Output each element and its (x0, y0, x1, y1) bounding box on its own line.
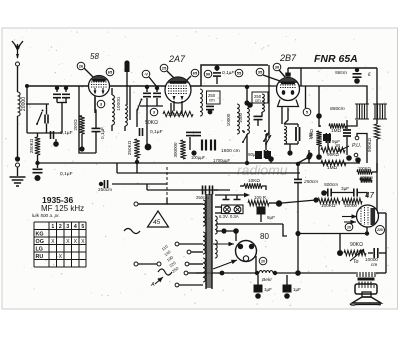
wire right rail down b (376, 152, 378, 213)
black cap block (255, 151, 262, 159)
wire (260, 214, 262, 222)
svg-text:To: To (353, 259, 359, 265)
resistor 100R (248, 200, 269, 205)
junction (214, 65, 219, 70)
svg-text:10KΩ: 10KΩ (248, 178, 260, 183)
capacitor 58cm (353, 73, 362, 75)
pilot lamp 2 (234, 206, 241, 213)
terminal PU2 (354, 153, 358, 157)
wire (279, 70, 285, 77)
wire (358, 193, 367, 198)
tuning capacitor C1 (53, 93, 61, 95)
wire (189, 137, 191, 150)
resistor IF2 (316, 131, 321, 146)
wire (181, 101, 183, 114)
circled label 65 (106, 68, 114, 76)
wire (55, 139, 57, 144)
speaker cone (352, 297, 381, 303)
junction (355, 68, 359, 72)
wire (289, 144, 291, 153)
wire (346, 120, 357, 126)
wire (216, 77, 218, 84)
wire box left (79, 86, 96, 153)
junction (255, 271, 259, 275)
resistor 1M b (321, 160, 346, 165)
junction blob (35, 175, 41, 181)
svg-text:500KΩ: 500KΩ (367, 137, 372, 152)
circled label 3 (97, 100, 105, 108)
wire caps common (57, 102, 67, 104)
junction (35, 161, 39, 165)
junction mid (307, 152, 312, 157)
junction rail corner (25, 84, 29, 88)
switch PU lever (337, 146, 349, 152)
wire (346, 137, 348, 155)
capacitor C9 (139, 128, 141, 136)
junction (365, 231, 369, 235)
circled label -V (142, 70, 150, 78)
wire rail continues (201, 85, 306, 87)
wire pilot feed a (215, 206, 222, 208)
svg-text:65: 65 (193, 70, 198, 75)
switch S5 (263, 140, 265, 142)
wire (146, 98, 148, 106)
wire (346, 120, 348, 129)
wire (265, 134, 267, 150)
wire plate lead (216, 223, 283, 225)
capacitor (186, 131, 194, 133)
capacitor bottom b (209, 186, 211, 195)
svg-text:2A7: 2A7 (168, 54, 186, 64)
svg-text:1MΩ: 1MΩ (309, 129, 314, 139)
wire top rail upper right (288, 67, 377, 69)
svg-text:5: 5 (81, 224, 84, 230)
wire (37, 133, 39, 137)
capacitor bottom a (202, 186, 204, 195)
svg-text:0,1µF: 0,1µF (60, 130, 73, 136)
wire (216, 65, 218, 71)
wire (167, 71, 174, 78)
wire (257, 275, 259, 285)
switch S4 (265, 143, 267, 145)
electrolytic cap hatched (323, 134, 331, 141)
resistor 200 ohm (79, 116, 84, 134)
wire rail to 47 (298, 233, 367, 235)
svg-text:ε: ε (368, 72, 371, 78)
dashed wire (166, 167, 168, 198)
junction blob (354, 78, 360, 84)
svg-text:500cm: 500cm (324, 182, 338, 187)
capacitor 250cm (103, 180, 105, 188)
circled label 20 (259, 257, 267, 265)
capacitor 0.1uF (50, 131, 52, 139)
capacitor 1600cm a (201, 140, 203, 151)
capacitor AF triple (343, 130, 351, 136)
svg-text:10000: 10000 (116, 97, 122, 111)
wire (146, 184, 148, 190)
resistor 100K c (318, 198, 340, 203)
pilot lamp box (222, 205, 244, 214)
potentiometer 500K (374, 124, 379, 139)
junction d2 (316, 154, 322, 160)
wire (116, 163, 118, 173)
wire right rail down (376, 68, 378, 124)
coil 2B7 grid (262, 94, 264, 112)
svg-text:100µµF: 100µµF (191, 155, 206, 160)
svg-text:A: A (150, 282, 155, 288)
svg-text:250cm: 250cm (98, 187, 112, 192)
junction AF (316, 113, 322, 119)
junction cap1 (55, 86, 59, 90)
junction (245, 161, 249, 165)
terminal (157, 262, 161, 266)
wire (263, 75, 280, 81)
svg-text:250KΩ: 250KΩ (127, 140, 132, 155)
capacitor C6 (92, 127, 101, 129)
wire (372, 171, 377, 173)
wire AVC long rail (100, 162, 360, 164)
wire (95, 132, 97, 153)
wire (156, 86, 158, 92)
capacitor IF2 b (325, 133, 327, 143)
wire (286, 275, 288, 285)
wire (136, 164, 138, 173)
svg-text:X: X (51, 239, 55, 245)
svg-text:LG: LG (36, 247, 44, 253)
svg-text:58cm: 58cm (335, 70, 347, 76)
svg-text:4: 4 (74, 224, 77, 230)
tube 58 (89, 76, 110, 97)
wire (111, 88, 113, 95)
wire (129, 86, 131, 113)
svg-text:30: 30 (275, 64, 280, 69)
wire (376, 163, 378, 172)
capacitor 10000cm row (353, 189, 355, 197)
wire (257, 120, 259, 126)
svg-text:0,1µF: 0,1µF (150, 129, 163, 135)
wire 47 bottom (366, 227, 368, 234)
capacitor (254, 115, 263, 117)
wire (379, 252, 386, 254)
wire main right drop (297, 164, 299, 273)
svg-text:25: 25 (162, 65, 167, 70)
wire (186, 76, 191, 81)
svg-text:1700µµF: 1700µµF (213, 158, 231, 163)
wire (136, 110, 138, 127)
wire (282, 200, 316, 203)
capacitor 1600cm b (210, 140, 212, 151)
capacitor (206, 105, 214, 107)
wire grid return (318, 86, 320, 127)
svg-text:P.U.: P.U. (352, 143, 361, 149)
rectifier tube 80 (236, 241, 257, 262)
transformer primary top (203, 200, 205, 226)
wire (283, 224, 287, 236)
svg-text:55: 55 (237, 70, 242, 75)
wire (65, 86, 67, 92)
wire rail 4 (147, 189, 230, 191)
wire (326, 192, 327, 194)
filter cap 2 (283, 285, 291, 292)
transformer primary mid (203, 232, 205, 254)
IF can 2 hatch (375, 104, 385, 119)
capacitor tone (373, 248, 375, 258)
wire (275, 272, 298, 274)
power transformer core hatch (206, 195, 212, 287)
svg-text:880cm: 880cm (330, 106, 345, 112)
IF can 1 frame (355, 104, 369, 119)
tube 2B7 (277, 78, 300, 107)
svg-text:9µF: 9µF (267, 215, 275, 220)
switch S3 (242, 141, 244, 143)
dial cap a (223, 195, 230, 200)
junction cap2 (64, 86, 68, 90)
output transformer core (358, 278, 375, 281)
terminal ground link (16, 163, 20, 167)
wire (368, 252, 373, 254)
wire (356, 68, 358, 72)
transformer primary bottom (203, 258, 205, 282)
wire (318, 146, 320, 157)
svg-text:1MΩ: 1MΩ (327, 165, 338, 170)
wire (297, 141, 299, 144)
svg-text:300000: 300000 (168, 112, 184, 117)
electrolytic 8uF (257, 207, 265, 214)
wire (146, 86, 148, 92)
IF can 1 hatch (357, 104, 367, 119)
speaker base (350, 304, 380, 306)
transformer core right (211, 194, 213, 289)
svg-text:MF 125 kHz: MF 125 kHz (41, 204, 84, 213)
svg-text:X: X (74, 239, 78, 245)
wire (319, 125, 321, 127)
svg-text:45: 45 (153, 219, 161, 226)
svg-text:X: X (59, 254, 63, 260)
triangle 45 (148, 211, 169, 227)
wire tap3 (189, 263, 203, 265)
svg-text:1600 cm: 1600 cm (221, 148, 240, 154)
junction bottom (295, 270, 301, 276)
capacitor 0.1uF top (213, 72, 221, 74)
circled label 35 (256, 68, 264, 76)
wire (246, 86, 248, 104)
junction (273, 271, 277, 275)
svg-text:1000: 1000 (238, 112, 243, 123)
svg-text:220: 220 (377, 228, 383, 232)
resistor 50K osc (163, 111, 193, 116)
junction (191, 150, 196, 155)
voltage tap 2 (187, 250, 191, 254)
svg-text:100 R: 100 R (254, 195, 267, 200)
capacitor C3 (44, 115, 46, 124)
svg-text:X: X (81, 239, 85, 245)
junction (244, 100, 249, 105)
junction (233, 228, 239, 234)
svg-text:1µF: 1µF (293, 287, 301, 292)
svg-text:1: 1 (51, 224, 54, 230)
wire PU frame (357, 134, 367, 164)
wire (377, 212, 386, 214)
IF primary coil (200, 89, 202, 116)
resistor 10K (244, 183, 262, 188)
svg-text:1µF: 1µF (264, 287, 272, 292)
wire rect cathode (255, 256, 257, 273)
tube 2A7 (165, 77, 191, 103)
wire (308, 150, 310, 163)
junction (245, 85, 249, 89)
voltage tap 3 (185, 262, 189, 266)
wire box bottom (27, 132, 62, 134)
circled label 30 (273, 63, 281, 71)
padder capacitor (143, 92, 151, 94)
ground symbol (10, 177, 26, 186)
wire (37, 155, 39, 168)
coil IF2 a (284, 126, 287, 144)
wire rail 2 (117, 172, 300, 174)
svg-text:FNR 65A: FNR 65A (314, 53, 358, 65)
arrow heater b (213, 260, 237, 269)
wire 2B7 base drop (281, 107, 283, 124)
wire (240, 185, 244, 187)
valve table (34, 222, 86, 267)
tuning capacitor C8 (153, 92, 161, 94)
svg-text:cm: cm (255, 98, 261, 103)
terminal mains A (134, 202, 138, 206)
wire (297, 124, 299, 127)
antenna coil L1 (18, 92, 21, 116)
wire (138, 263, 157, 265)
capacitor 0.1uF C5 (33, 168, 43, 170)
svg-text:100Km: 100Km (360, 175, 374, 180)
coil osc A (112, 95, 114, 125)
svg-text:KG: KG (36, 232, 44, 238)
wire (242, 130, 244, 132)
circled label 55 (235, 69, 243, 77)
wire lamp feed (215, 194, 246, 196)
svg-text:luik 500 a. pr.: luik 500 a. pr. (32, 213, 60, 218)
svg-text:0,1µF: 0,1µF (222, 70, 235, 76)
filter cap (254, 285, 262, 292)
wire bottom rail right (298, 272, 356, 274)
top cap blob 2B7 (285, 73, 290, 77)
osc coil D (247, 104, 249, 134)
terminal PU1 (355, 136, 359, 140)
wire rail to IF can (306, 86, 367, 104)
fuse (124, 229, 140, 234)
svg-text:300000: 300000 (173, 142, 178, 158)
wire (327, 141, 329, 150)
arrow tone pot (350, 249, 364, 261)
wire tap2 (191, 251, 203, 253)
junction (287, 150, 292, 155)
band switch S1 (36, 123, 38, 125)
junction (220, 271, 225, 276)
antenna (12, 41, 23, 58)
svg-text:1MΩ: 1MΩ (331, 128, 342, 133)
wire (235, 231, 237, 241)
wire rail corner (300, 68, 302, 86)
wire right rail bottom (385, 213, 387, 273)
arrow grid 47 (342, 216, 357, 218)
tube 47 (357, 205, 379, 227)
wire mains (138, 198, 167, 204)
wire main top rail (27, 85, 201, 87)
wire pot bottom (376, 139, 378, 152)
resistor 90K (321, 147, 345, 152)
svg-text:0,1µF: 0,1µF (60, 171, 73, 177)
wire (284, 143, 298, 145)
svg-text:OG: OG (36, 239, 44, 245)
svg-text:26: 26 (79, 63, 84, 68)
wire avc tap (298, 157, 309, 163)
wire (95, 97, 96, 128)
junction (276, 200, 282, 206)
wire (56, 86, 58, 92)
junction (53, 141, 59, 147)
capacitor IF2 (296, 127, 300, 141)
IF can 2 frame (373, 104, 387, 119)
terminal mains B (134, 262, 138, 266)
circled label 65b (191, 69, 199, 77)
wire (46, 104, 48, 115)
junction (145, 85, 149, 89)
wire tap4 (188, 272, 203, 274)
wire (46, 124, 48, 134)
wire grid cap 58 (84, 68, 93, 77)
wire 2A7 gridcap lead (126, 72, 128, 105)
svg-text:65: 65 (108, 69, 113, 74)
svg-text:X: X (66, 239, 70, 245)
fuse b (158, 269, 172, 275)
wire -V lead (149, 77, 157, 87)
svg-text:35: 35 (258, 69, 263, 74)
wire (167, 203, 203, 205)
svg-text:3: 3 (66, 224, 69, 230)
terminal bottom (175, 283, 179, 287)
svg-text:20: 20 (347, 225, 351, 229)
resistor 10000 (342, 198, 362, 203)
circled label 3b (150, 108, 158, 116)
junction tone (337, 250, 343, 256)
svg-text:Bekr: Bekr (262, 277, 272, 283)
wire (140, 105, 163, 107)
wire (136, 158, 138, 164)
arrow cathode 47 (344, 221, 356, 223)
svg-text:100KΩ: 100KΩ (358, 166, 371, 171)
wire (156, 98, 158, 106)
svg-text:radiomu: radiomu (237, 162, 288, 178)
svg-text:90: 90 (206, 71, 211, 76)
wire (124, 126, 126, 131)
svg-text:10000: 10000 (344, 203, 357, 208)
speaker coil ticks (359, 285, 374, 288)
osc coil C (237, 104, 239, 134)
top cap blob (124, 60, 129, 65)
junction (284, 293, 290, 299)
wire rail 3 (112, 183, 167, 185)
wire 58 cathode down (94, 96, 96, 113)
svg-text:cm: cm (371, 262, 377, 267)
antenna terminal (16, 62, 20, 66)
voltage tap 4 (184, 271, 188, 275)
svg-text:-V: -V (144, 72, 148, 76)
pilot lamp 1 (224, 206, 231, 213)
wire top rail upper (201, 65, 268, 86)
wire antenna coil to ground (17, 116, 19, 157)
svg-text:20: 20 (261, 259, 265, 263)
wire (376, 272, 386, 274)
junction d1 (306, 154, 311, 159)
